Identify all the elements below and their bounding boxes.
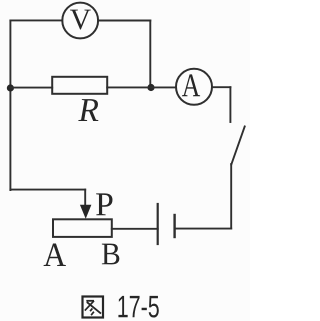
- wire right drop to node: [149, 21, 151, 88]
- resistor R body: [52, 77, 107, 94]
- ammeter A1 circle: [176, 69, 212, 105]
- caption glyph 图 inner strokes: [86, 300, 94, 302]
- wire slider rail: [10, 189, 85, 191]
- switch S blade: [231, 127, 244, 165]
- wire slider stem: [84, 190, 86, 207]
- node junction dot right: [147, 84, 154, 91]
- wire battery to rheostat: [112, 228, 158, 230]
- wire top rail right: [98, 20, 150, 22]
- node junction dot left: [7, 84, 14, 91]
- voltmeter V1 circle: [62, 3, 98, 39]
- wire top rail left: [10, 19, 62, 21]
- label P: [96, 193, 112, 215]
- wire bottom rail right: [175, 228, 232, 230]
- label V: [70, 10, 91, 30]
- wire middle rail left: [10, 87, 52, 89]
- wire middle rail center: [107, 86, 176, 88]
- battery short plate (negative): [173, 215, 175, 237]
- label B terminal: [102, 244, 119, 265]
- label R: [78, 99, 98, 121]
- label A terminal: [44, 244, 66, 266]
- battery long plate (positive): [157, 204, 159, 244]
- wire left vertical: [9, 20, 11, 190]
- switch S fixed contact lead: [229, 87, 231, 122]
- wire ammeter to switch: [212, 86, 230, 88]
- rheostat AB body: [53, 219, 112, 237]
- wire switch lead down: [230, 164, 232, 229]
- label A ammeter: [182, 74, 200, 96]
- caption text 17-5: [118, 296, 158, 318]
- caption glyph 图 box: [83, 297, 104, 318]
- slider arrow P head: [80, 205, 92, 219]
